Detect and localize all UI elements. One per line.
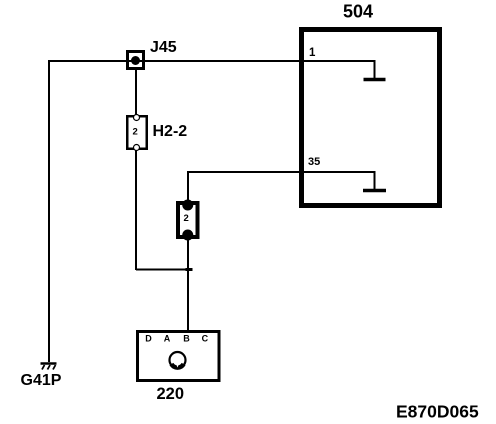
svg-text:A: A [164,333,171,343]
svg-text:B: B [183,333,190,343]
svg-text:1: 1 [309,47,316,59]
svg-text:J45: J45 [150,39,177,56]
svg-text:G41P: G41P [21,372,62,389]
svg-text:504: 504 [343,2,373,22]
svg-text:220: 220 [157,385,185,403]
svg-text:2: 2 [184,213,189,224]
svg-text:E870D065: E870D065 [396,402,479,422]
svg-text:2: 2 [133,127,138,138]
svg-text:H2-2: H2-2 [153,123,188,140]
svg-text:35: 35 [308,156,320,168]
svg-text:D: D [145,333,152,343]
svg-text:C: C [202,333,209,343]
